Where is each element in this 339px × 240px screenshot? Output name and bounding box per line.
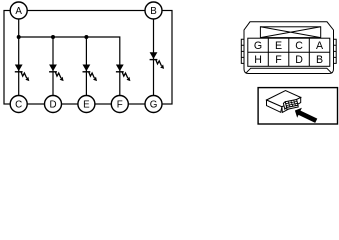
svg-text:C: C xyxy=(15,100,22,111)
svg-text:H: H xyxy=(254,54,262,66)
svg-text:G: G xyxy=(150,100,158,111)
svg-text:D: D xyxy=(49,100,56,111)
svg-text:E: E xyxy=(83,100,90,111)
svg-text:C: C xyxy=(295,40,303,52)
svg-text:B: B xyxy=(316,54,323,66)
svg-text:G: G xyxy=(254,40,262,52)
svg-text:E: E xyxy=(275,40,282,52)
svg-text:F: F xyxy=(275,54,282,66)
svg-text:A: A xyxy=(316,40,324,52)
svg-text:F: F xyxy=(117,100,123,111)
svg-text:B: B xyxy=(150,6,157,17)
svg-text:D: D xyxy=(295,54,303,66)
svg-text:A: A xyxy=(15,6,22,17)
